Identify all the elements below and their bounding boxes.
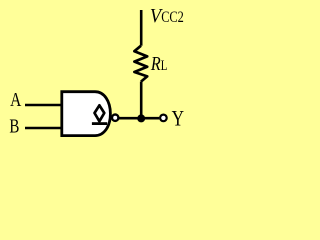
svg-text:R: R xyxy=(150,53,161,75)
svg-text:L: L xyxy=(161,57,168,74)
wire: input A to gate xyxy=(25,104,61,107)
svg-text:CC2: CC2 xyxy=(161,9,184,26)
open-drain symbol (diamond with underline) inside gate xyxy=(92,105,107,123)
svg-text:A: A xyxy=(10,89,22,111)
output inversion bubble xyxy=(112,115,118,121)
junction dot at output node xyxy=(137,114,145,122)
NAND gate body xyxy=(62,92,111,136)
svg-text:Y: Y xyxy=(172,106,184,131)
wire: VCC2 supply stub down to resistor top xyxy=(140,10,143,46)
wire: bubble to output terminal xyxy=(118,117,159,120)
wire: input B to gate xyxy=(25,127,61,130)
output terminal (open circle) xyxy=(160,115,167,122)
wire: resistor bottom to output node xyxy=(140,82,143,119)
wire stub: gate output to bubble xyxy=(110,116,113,119)
resistor RL value label xyxy=(150,53,167,75)
resistor RL (zigzag) xyxy=(134,46,147,82)
svg-text:B: B xyxy=(9,115,19,137)
node VCC2 label xyxy=(150,5,184,27)
